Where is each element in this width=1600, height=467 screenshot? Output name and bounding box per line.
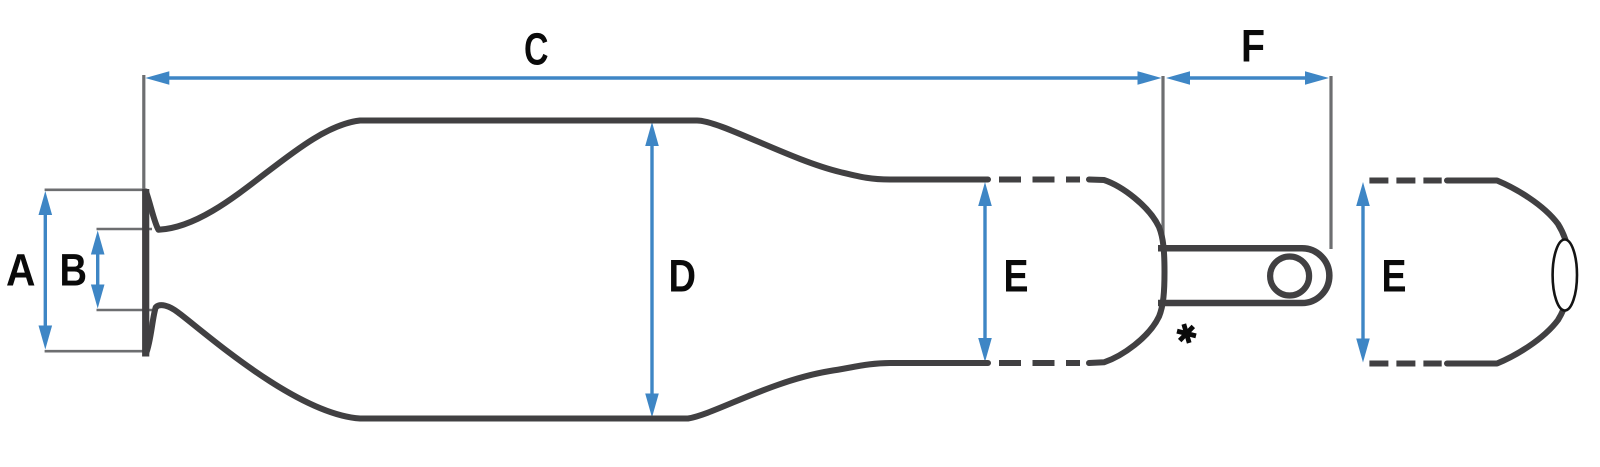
asterisk footnote mark [1175, 322, 1199, 346]
dimension arrow A [39, 191, 53, 350]
clip hole circle [1270, 257, 1309, 296]
extension line mid (C/F boundary) [1161, 76, 1164, 247]
dimension arrow C [145, 71, 1161, 85]
right piece outline [1447, 181, 1571, 364]
body outline top (flange, funnel, shoulder, mid section) [146, 121, 988, 230]
dimension arrow E (right piece) [1356, 182, 1370, 363]
B box top line [97, 228, 153, 231]
dimension arrow F [1166, 71, 1329, 85]
A box top line [45, 189, 146, 192]
dimension arrow B [91, 231, 105, 309]
dimension arrow E (middle) [978, 182, 992, 362]
right piece end ellipse [1553, 240, 1577, 311]
right piece dashed top [1369, 178, 1441, 184]
body dashed top [999, 177, 1080, 183]
svg-text:B: B [60, 245, 88, 296]
svg-text:C: C [524, 23, 549, 74]
body outline bottom [146, 305, 988, 418]
svg-text:F: F [1241, 21, 1265, 72]
right piece dashed bottom [1369, 361, 1441, 367]
body dashed bottom [999, 360, 1080, 366]
svg-text:E: E [1382, 250, 1407, 301]
B box bottom line [97, 309, 153, 312]
A box bottom line [45, 350, 146, 353]
body right end cap [1089, 180, 1165, 364]
dimension arrow D [645, 122, 659, 418]
clip bar [1158, 248, 1329, 303]
svg-text:E: E [1004, 250, 1029, 301]
body rim (flange edge) [142, 189, 149, 357]
extension line left (for C) [142, 75, 145, 190]
svg-text:D: D [669, 250, 697, 301]
svg-text:A: A [6, 245, 36, 296]
extension line right (F end) [1329, 76, 1332, 249]
